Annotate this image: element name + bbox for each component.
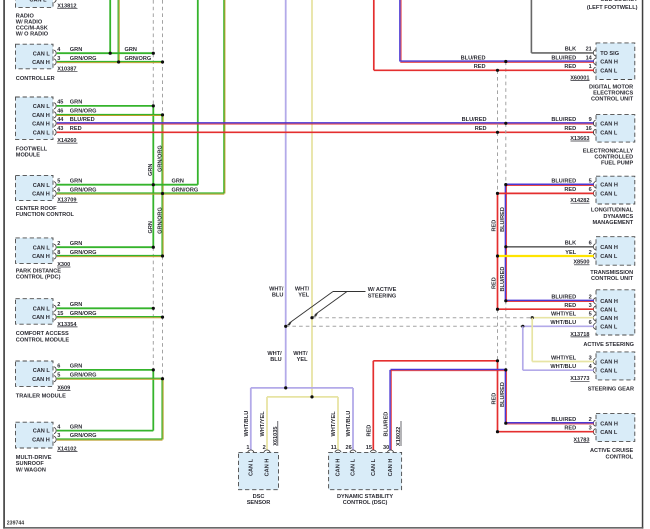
svg-text:CAN H: CAN H: [336, 459, 342, 477]
wire WHT/BLU solid to active steering CAN L: [523, 325, 594, 327]
module MULTI-DRIVE box: [16, 422, 54, 448]
svg-text:CONTROLLED: CONTROLLED: [594, 155, 633, 161]
junction trunk long CAN L: [496, 192, 499, 195]
wire center roof CAN H GRN/ORG: [57, 192, 225, 194]
svg-text:BLU/RED: BLU/RED: [462, 117, 487, 123]
wire multidrive CAN H GRN/ORG: [57, 438, 163, 440]
pin bracket long 5: [593, 182, 595, 188]
wire WHT/BLU main vertical: [285, 0, 287, 388]
svg-text:15: 15: [366, 445, 372, 451]
junction WHT/BLU tap on main vertical: [284, 325, 287, 328]
junction trunk DME CAN L: [496, 69, 499, 72]
wire footwell CAN L RED to fuel pump: [57, 131, 594, 133]
svg-text:CAN L: CAN L: [33, 368, 51, 374]
svg-text:3: 3: [589, 426, 592, 432]
svg-text:CAN L: CAN L: [33, 130, 51, 136]
svg-text:WHT/BLU: WHT/BLU: [244, 411, 250, 437]
svg-text:6: 6: [589, 320, 592, 326]
svg-text:3: 3: [589, 355, 592, 361]
svg-text:DYNAMIC STABILITY: DYNAMIC STABILITY: [337, 494, 393, 500]
wire pdc CAN H GRN/ORG: [57, 255, 163, 257]
svg-text:GRN/ORG: GRN/ORG: [70, 373, 97, 379]
junction radio-controller CAN L: [109, 52, 112, 55]
junction bus pdc CAN H: [161, 254, 164, 257]
pin bracket fuel 16: [593, 129, 595, 135]
svg-text:STEERING: STEERING: [368, 293, 397, 299]
wire trunk BLU/RED dashed DME to fuel pump: [505, 62, 507, 124]
junction bus center roof CAN H: [161, 192, 164, 195]
svg-text:LONGITUDINAL: LONGITUDINAL: [591, 208, 634, 214]
wire BLK vertical to OBD socket: [530, 0, 532, 53]
svg-text:CAN L: CAN L: [351, 458, 357, 476]
pin bracket as 2: [593, 298, 595, 304]
svg-text:GRN: GRN: [70, 364, 82, 370]
pin bracket sg 4: [593, 367, 595, 373]
wire CAN bus line B solid GRN/ORG segment trailer to multi-drive corner: [161, 379, 163, 440]
svg-text:CCC/M-ASK: CCC/M-ASK: [16, 26, 48, 32]
svg-text:CAN H: CAN H: [388, 459, 394, 477]
wire trunk RED solid longitudinal to active steering: [497, 193, 499, 309]
wire trunk RED solid to active cruise: [497, 361, 499, 432]
svg-text:CAN L: CAN L: [600, 430, 618, 436]
wire CAN bus line B dashed segment PDC to trailer: [162, 256, 164, 379]
wire CAN bus line A solid GRN segment trailer to multi-drive corner: [152, 370, 154, 431]
junction bus controller CAN L: [152, 52, 155, 55]
svg-text:GRN/ORG: GRN/ORG: [70, 250, 97, 256]
svg-text:2: 2: [57, 241, 60, 247]
svg-text:GRN: GRN: [70, 179, 82, 185]
junction bus trailer CAN H: [161, 377, 164, 380]
svg-text:GRN: GRN: [148, 164, 154, 176]
svg-text:YEL: YEL: [297, 357, 308, 363]
junction WHT/BLU steering gear tap: [521, 325, 524, 328]
wire WHT/YEL right drop to DSC pin 11: [337, 397, 339, 450]
svg-text:16: 16: [586, 126, 592, 132]
module ACTIVE STEERING box: [596, 290, 635, 335]
pin bracket multidrive 4: [54, 428, 56, 434]
wire CAN bus line A dashed segment top (GRN): [152, 0, 154, 106]
svg-text:45: 45: [57, 100, 63, 106]
pin bracket as 6: [593, 323, 595, 329]
svg-text:COMFORT ACCESS: COMFORT ACCESS: [16, 331, 69, 337]
svg-text:RED: RED: [367, 425, 373, 437]
pin bracket pdc 8: [54, 253, 56, 259]
module PDC box: [16, 238, 54, 264]
svg-text:CAN L: CAN L: [600, 192, 618, 198]
junction bus trailer CAN L: [152, 368, 155, 371]
svg-text:3: 3: [57, 56, 60, 62]
pin bracket controller 3: [54, 59, 56, 65]
module STEERING GEAR box: [596, 352, 635, 380]
pin bracket as 5: [593, 315, 595, 321]
junction trunk BLU/RED steering level: [504, 368, 507, 371]
svg-text:WHT/BLU: WHT/BLU: [550, 364, 576, 370]
wire center roof CAN L GRN: [57, 184, 198, 186]
svg-text:15: 15: [57, 311, 63, 317]
svg-text:BLU/RED: BLU/RED: [551, 295, 576, 301]
svg-text:CAN H: CAN H: [265, 459, 271, 477]
svg-text:5: 5: [589, 311, 592, 317]
callout arrow to WHT/BLU: [289, 292, 333, 324]
svg-text:ACTIVE STEERING: ACTIVE STEERING: [583, 342, 634, 348]
junction trunk fuel CAN L: [496, 131, 499, 134]
svg-text:WHT/: WHT/: [267, 351, 282, 357]
pin bracket sensor 1: [248, 450, 254, 452]
svg-text:CAN L: CAN L: [33, 104, 51, 110]
pin bracket footwell 44: [54, 120, 56, 126]
svg-text:MANAGEMENT: MANAGEMENT: [592, 220, 633, 226]
wire WHT/YEL steering gear CAN H: [532, 361, 594, 363]
wire WHT/YEL steering gear vertical: [531, 318, 533, 362]
junction WHT/BLU tee: [284, 386, 287, 389]
svg-text:MODULE: MODULE: [16, 153, 41, 159]
svg-text:GRN: GRN: [125, 47, 137, 53]
svg-text:RED: RED: [70, 126, 82, 132]
svg-text:STEERING GEAR: STEERING GEAR: [588, 386, 634, 392]
svg-text:CAN H: CAN H: [32, 254, 50, 260]
svg-text:CAN L: CAN L: [33, 51, 51, 57]
svg-text:GRN: GRN: [70, 241, 82, 247]
svg-text:W/ O RADIO: W/ O RADIO: [16, 32, 49, 38]
junction trunk trans CAN H: [504, 245, 507, 248]
svg-text:GRN/ORG: GRN/ORG: [70, 56, 97, 62]
wire trunk RED dashed DME to fuel pump: [497, 70, 499, 132]
svg-text:GRN: GRN: [172, 179, 184, 185]
svg-text:CAN L: CAN L: [33, 245, 51, 251]
wire trunk BLU/RED solid to active cruise: [504, 370, 506, 423]
svg-text:ACTIVE CRUISE: ACTIVE CRUISE: [590, 448, 633, 454]
junction WHT/YEL tee: [310, 395, 313, 398]
svg-text:WHT/YEL: WHT/YEL: [551, 355, 577, 361]
pin bracket DME 14: [593, 58, 595, 64]
wire WHT/YEL solid to active steering CAN H: [532, 317, 594, 319]
pin bracket acc 3: [593, 429, 595, 435]
svg-text:W/ RADIO: W/ RADIO: [16, 20, 43, 26]
wire trunk BLU/RED dashed fuel pump to longitudinal: [505, 123, 507, 184]
svg-text:3: 3: [589, 303, 592, 309]
junction trunk as CAN L: [496, 308, 499, 311]
svg-text:RED: RED: [492, 220, 498, 232]
module TRANSMISSION box: [596, 237, 635, 266]
svg-text:8: 8: [57, 250, 60, 256]
wire GRN vertical center roof to top: [197, 0, 199, 185]
wire RED horizontal to DSC pin 15: [373, 360, 497, 362]
svg-text:CENTER ROOF: CENTER ROOF: [16, 206, 57, 212]
wire WHT/BLU tee horizontal: [251, 387, 353, 389]
svg-text:SENSOR: SENSOR: [247, 500, 271, 506]
pin bracket trailer 6: [54, 367, 56, 373]
wire BLU/RED horizontal to DSC pin 30: [391, 369, 506, 371]
wire trunk BLU/RED solid longitudinal to active steering: [504, 185, 506, 301]
wire trailer CAN H GRN/ORG: [57, 377, 163, 379]
svg-text:CAN L: CAN L: [600, 254, 618, 260]
svg-text:PARK DISTANCE: PARK DISTANCE: [16, 268, 61, 274]
svg-text:1: 1: [589, 64, 592, 70]
svg-text:CAN H: CAN H: [32, 377, 50, 383]
wire CAN bus line B dashed segment top (GRN/ORG): [162, 0, 164, 115]
svg-text:GRN/ORG: GRN/ORG: [157, 145, 163, 172]
svg-text:FUEL PUMP: FUEL PUMP: [601, 161, 633, 167]
svg-text:ELECTRONICALLY: ELECTRONICALLY: [583, 148, 634, 154]
wire trunk BLU/RED dashed active steering to steering-gear level: [505, 301, 507, 370]
wire multidrive CAN L GRN: [57, 430, 154, 432]
svg-text:WHT/YEL: WHT/YEL: [331, 411, 337, 437]
svg-text:5: 5: [57, 373, 60, 379]
svg-text:MULTI-DRIVE: MULTI-DRIVE: [16, 455, 52, 461]
svg-text:BLU/RED: BLU/RED: [551, 55, 576, 61]
svg-text:WHT/YEL: WHT/YEL: [260, 411, 266, 437]
svg-text:CAN H: CAN H: [600, 316, 618, 322]
svg-text:11: 11: [331, 445, 337, 451]
svg-text:(LEFT FOOTWELL): (LEFT FOOTWELL): [587, 5, 638, 11]
wire footwell CAN H GRN/ORG: [57, 113, 163, 115]
module DSC SENSOR box: [239, 452, 279, 489]
pin bracket sg 3: [593, 358, 595, 364]
svg-text:BLU/RED: BLU/RED: [500, 207, 506, 232]
svg-text:CAN L: CAN L: [248, 458, 254, 476]
pin bracket acc 2: [593, 420, 595, 426]
svg-text:WHT/: WHT/: [295, 286, 310, 292]
svg-text:21: 21: [586, 47, 592, 53]
svg-text:CAN H: CAN H: [600, 299, 618, 305]
svg-text:TRAILER MODULE: TRAILER MODULE: [16, 394, 66, 400]
module RADIO box (cut off): [16, 0, 54, 7]
module LONGITUDINAL box: [596, 176, 635, 204]
svg-text:BLK: BLK: [565, 47, 577, 53]
wire controller CAN L GRN: [57, 52, 154, 54]
pin bracket comfort 15: [54, 314, 56, 320]
wire GRN/ORG vertical center roof to top: [223, 0, 225, 194]
svg-text:CAN L: CAN L: [371, 458, 377, 476]
svg-text:RED: RED: [492, 393, 498, 405]
svg-text:46: 46: [57, 109, 63, 115]
svg-text:CAN H: CAN H: [32, 315, 50, 321]
module COMFORT ACCESS box: [16, 299, 54, 325]
wire BLU/RED vertical to DSC pin 30: [389, 370, 391, 450]
svg-text:GRN/ORG: GRN/ORG: [70, 433, 97, 439]
wire CAN bus line A solid GRN segment footwell to PDC: [152, 106, 154, 247]
svg-text:2: 2: [263, 445, 266, 451]
svg-text:GRN: GRN: [70, 47, 82, 53]
svg-text:30: 30: [383, 445, 389, 451]
wire YEL transmission CAN L: [498, 255, 594, 257]
junction WHT/YEL tap on main vertical: [310, 316, 313, 319]
pin bracket trans 6: [593, 244, 595, 250]
module DSC box: [329, 452, 402, 489]
svg-text:26: 26: [345, 445, 351, 451]
svg-text:CAN H: CAN H: [600, 60, 618, 66]
svg-text:CAN L: CAN L: [600, 368, 618, 374]
svg-text:GRN/ORG: GRN/ORG: [157, 207, 163, 234]
svg-text:6: 6: [589, 187, 592, 193]
svg-text:YEL: YEL: [565, 250, 576, 256]
svg-text:BLU/RED: BLU/RED: [461, 55, 486, 61]
junction bus pdc CAN L: [152, 246, 155, 249]
svg-text:ELECTRONICS: ELECTRONICS: [593, 91, 633, 97]
svg-text:GRN: GRN: [148, 221, 154, 233]
wire pdc CAN L GRN: [57, 246, 154, 248]
svg-text:239744: 239744: [7, 521, 24, 527]
svg-text:GRN/ORG: GRN/ORG: [70, 187, 97, 193]
svg-text:CAN L: CAN L: [33, 183, 51, 189]
svg-text:OBD SOCKET: OBD SOCKET: [600, 0, 638, 3]
svg-text:BLU/RED: BLU/RED: [551, 178, 576, 184]
module CENTER ROOF box: [16, 175, 54, 200]
svg-text:W/ ACTIVE: W/ ACTIVE: [368, 287, 397, 293]
svg-text:BLU/RED: BLU/RED: [551, 117, 576, 123]
svg-text:DSC: DSC: [253, 494, 265, 500]
junction bus comfort CAN L: [152, 307, 155, 310]
pin bracket dsc 15: [370, 450, 376, 452]
wire trunk RED dashed fuel pump to longitudinal: [497, 132, 499, 193]
pin bracket dsc 11: [335, 450, 341, 452]
junction trunk as CAN H: [504, 299, 507, 302]
svg-text:GRN/ORG: GRN/ORG: [70, 109, 97, 115]
pin bracket multidrive 3: [54, 436, 56, 442]
svg-text:14: 14: [586, 55, 593, 61]
svg-text:2: 2: [589, 250, 592, 256]
junction bus center roof CAN L: [152, 183, 155, 186]
svg-text:GRN/ORG: GRN/ORG: [125, 56, 152, 62]
junction trunk acc CAN H: [504, 422, 507, 425]
pin bracket DME 1: [593, 67, 595, 73]
svg-text:GRN/ORG: GRN/ORG: [70, 311, 97, 317]
junction bus footwell CAN L: [152, 104, 155, 107]
pin bracket footwell 46: [54, 112, 56, 118]
wire trailer CAN L GRN: [57, 369, 154, 371]
wire RED active cruise CAN L: [498, 431, 594, 433]
svg-text:RED: RED: [564, 303, 576, 309]
svg-text:BLU/RED: BLU/RED: [551, 417, 576, 423]
svg-text:CAN L: CAN L: [600, 307, 618, 313]
callout arrow to WHT/YEL: [315, 292, 347, 315]
svg-text:CAN H: CAN H: [32, 438, 50, 444]
module FOOTWELL box: [16, 97, 54, 139]
svg-text:5: 5: [589, 178, 592, 184]
svg-text:DIGITAL MOTOR: DIGITAL MOTOR: [589, 84, 633, 90]
svg-text:5: 5: [57, 179, 60, 185]
wire WHT/BLU left drop to DSC sensor pin 1: [250, 388, 252, 450]
callout pointer line horizontal: [333, 291, 366, 293]
svg-text:BLU: BLU: [270, 357, 282, 363]
svg-text:1: 1: [246, 445, 249, 451]
pin bracket radio CAN L: [54, 0, 56, 3]
svg-text:WHT/BLU: WHT/BLU: [346, 411, 352, 437]
wire WHT/YEL left drop to DSC sensor pin 2: [266, 397, 268, 450]
svg-text:CONTROL (PDC): CONTROL (PDC): [16, 275, 61, 281]
svg-text:CAN H: CAN H: [600, 183, 618, 189]
svg-text:CAN H: CAN H: [32, 113, 50, 119]
junction trunk DME CAN H: [504, 60, 507, 63]
svg-text:BLU/RED: BLU/RED: [500, 382, 506, 407]
svg-text:FUNCTION CONTROL: FUNCTION CONTROL: [16, 212, 75, 218]
svg-text:WHT/BLU: WHT/BLU: [550, 320, 576, 326]
svg-text:TRANSMISSION: TRANSMISSION: [590, 270, 633, 276]
svg-text:CONTROL (DSC): CONTROL (DSC): [343, 500, 388, 506]
svg-text:2: 2: [589, 295, 592, 301]
wire RED active steering CAN L: [498, 308, 594, 310]
svg-text:44: 44: [57, 117, 64, 123]
svg-text:6: 6: [57, 187, 60, 193]
svg-text:CONTROLLER: CONTROLLER: [16, 76, 55, 82]
svg-text:CAN H: CAN H: [600, 121, 618, 127]
pin bracket long 6: [593, 190, 595, 196]
diagram bottom border line: [3, 527, 643, 529]
svg-text:CAN H: CAN H: [32, 60, 50, 66]
wire WHT/YEL tee horizontal: [267, 396, 338, 398]
pin bracket DME 21: [593, 50, 595, 56]
svg-text:RADIO: RADIO: [16, 13, 35, 19]
svg-text:BLU: BLU: [272, 293, 284, 299]
diagram right border bar: [642, 0, 644, 529]
svg-text:WHT/: WHT/: [293, 351, 308, 357]
svg-text:WHT/: WHT/: [269, 286, 284, 292]
svg-text:RED: RED: [564, 426, 576, 432]
module TRAILER box: [16, 361, 54, 386]
pin bracket trans 2: [593, 253, 595, 259]
wire RED longitudinal CAN L: [498, 192, 594, 194]
svg-text:CONTROL: CONTROL: [606, 454, 634, 460]
svg-text:CAN H: CAN H: [32, 121, 50, 127]
svg-text:CAN H: CAN H: [600, 245, 618, 251]
svg-text:9: 9: [589, 117, 592, 123]
diagram left border bar: [3, 0, 5, 529]
svg-text:GRN: GRN: [70, 100, 82, 106]
pin bracket controller 4: [54, 50, 56, 56]
junction radio-controller CAN H: [117, 60, 120, 63]
wire RED DME CAN L: [374, 69, 594, 71]
wire controller CAN H GRN/ORG: [57, 61, 163, 63]
pin bracket center roof 5: [54, 182, 56, 188]
wire GRN vertical from radio CAN L: [109, 0, 111, 53]
wire WHT/BLU right drop to DSC pin 26: [352, 388, 354, 450]
wire WHT/YEL main vertical: [311, 0, 313, 397]
svg-text:RED: RED: [492, 277, 498, 289]
pin bracket footwell 43: [54, 129, 56, 135]
pin bracket dsc 26: [350, 450, 356, 452]
wire RED vertical to DSC pin 15: [372, 361, 374, 450]
svg-text:GRN/ORG: GRN/ORG: [172, 187, 199, 193]
wire trunk RED dashed active steering to steering-gear level: [497, 309, 499, 361]
svg-text:RED: RED: [564, 187, 576, 193]
svg-text:FOOTWELL: FOOTWELL: [16, 146, 48, 152]
svg-text:CAN L: CAN L: [600, 324, 618, 330]
svg-text:GRN: GRN: [70, 424, 82, 430]
wire GRN/ORG vertical from radio CAN H: [117, 0, 119, 62]
svg-text:CAN L: CAN L: [33, 429, 51, 435]
pin bracket fuel 9: [593, 120, 595, 126]
wire footwell CAN L GRN: [57, 105, 154, 107]
wire BLU/RED DME CAN H: [400, 60, 594, 62]
svg-text:YEL: YEL: [298, 293, 309, 299]
pin bracket as 3: [593, 306, 595, 312]
junction bus comfort CAN H: [161, 316, 164, 319]
junction trunk long CAN H: [504, 183, 507, 186]
svg-text:W/ WAGON: W/ WAGON: [16, 467, 46, 473]
svg-text:GRN: GRN: [70, 302, 82, 308]
svg-text:CONTROL UNIT: CONTROL UNIT: [591, 97, 634, 103]
pin bracket dsc 30: [387, 450, 393, 452]
svg-text:BLU/RED: BLU/RED: [384, 412, 390, 437]
pin bracket pdc 2: [54, 244, 56, 250]
svg-text:BLU/RED: BLU/RED: [70, 117, 95, 123]
svg-text:RED: RED: [564, 64, 576, 70]
pin bracket sensor 2: [264, 450, 270, 452]
svg-text:CAN H: CAN H: [600, 360, 618, 366]
module FUEL PUMP box: [596, 115, 635, 143]
svg-text:RED: RED: [564, 126, 576, 132]
module CONTROLLER box: [16, 44, 54, 69]
